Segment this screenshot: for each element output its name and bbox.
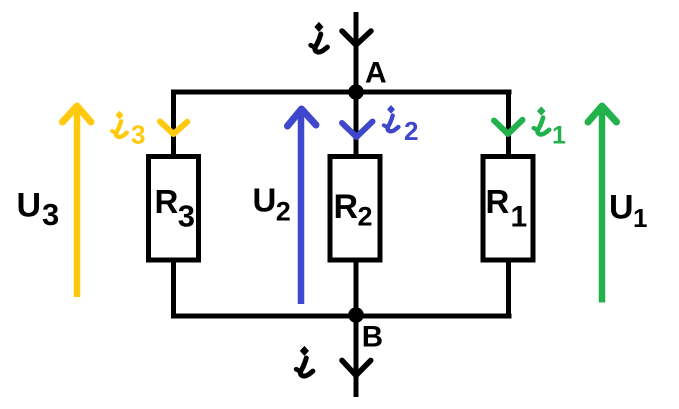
svg-text:1: 1 (552, 121, 566, 149)
svg-text:3: 3 (42, 197, 59, 232)
current arrowhead i into node A (black chevron) (342, 31, 371, 45)
svg-text:A: A (365, 56, 387, 89)
wire right branch top segment (506, 90, 511, 156)
wire bottom bus (171, 314, 512, 319)
svg-text:2: 2 (404, 116, 418, 146)
svg-text:R: R (486, 183, 510, 220)
node A junction dot (348, 84, 364, 100)
current label i (top) (311, 23, 328, 52)
current label i3 (112, 111, 127, 137)
svg-text:2: 2 (358, 201, 373, 231)
wire middle branch top segment (354, 92, 359, 155)
wire left branch bottom segment (171, 261, 176, 319)
svg-text:1: 1 (633, 203, 647, 233)
current label i2 (384, 106, 399, 132)
voltage arrow U2 (blue, up) (298, 111, 305, 304)
current label i1 (534, 107, 550, 134)
resistor R1 (483, 157, 533, 261)
voltage arrow U3 (yellow, up) (74, 108, 81, 297)
voltage arrow U1 (green, up) (599, 109, 606, 303)
svg-text:3: 3 (178, 199, 195, 234)
svg-text:3: 3 (131, 120, 145, 150)
wire middle branch bottom feed (354, 316, 359, 397)
wire top bus (171, 90, 512, 95)
current arrow i1 (green chevron) (494, 120, 523, 134)
svg-text:2: 2 (276, 197, 291, 227)
svg-text:R: R (155, 183, 179, 220)
svg-text:B: B (362, 320, 383, 353)
current arrow i3 (yellow chevron) (160, 122, 187, 135)
current arrow i2 (blue chevron) (342, 122, 373, 138)
wire left branch top segment (171, 90, 176, 156)
resistor R3 (149, 157, 199, 261)
wire middle branch bottom segment (354, 261, 359, 316)
node B junction dot (348, 307, 364, 323)
svg-text:R: R (334, 188, 359, 226)
current arrowhead i out of node B (black chevron) (342, 360, 371, 375)
wire middle branch top feed (354, 12, 359, 92)
svg-text:U: U (17, 187, 42, 225)
current label i (bottom) (296, 347, 313, 376)
svg-text:U: U (609, 189, 634, 227)
svg-text:1: 1 (511, 200, 528, 233)
wire right branch bottom segment (506, 261, 511, 319)
resistor R2 (330, 157, 380, 261)
svg-text:U: U (253, 181, 277, 218)
